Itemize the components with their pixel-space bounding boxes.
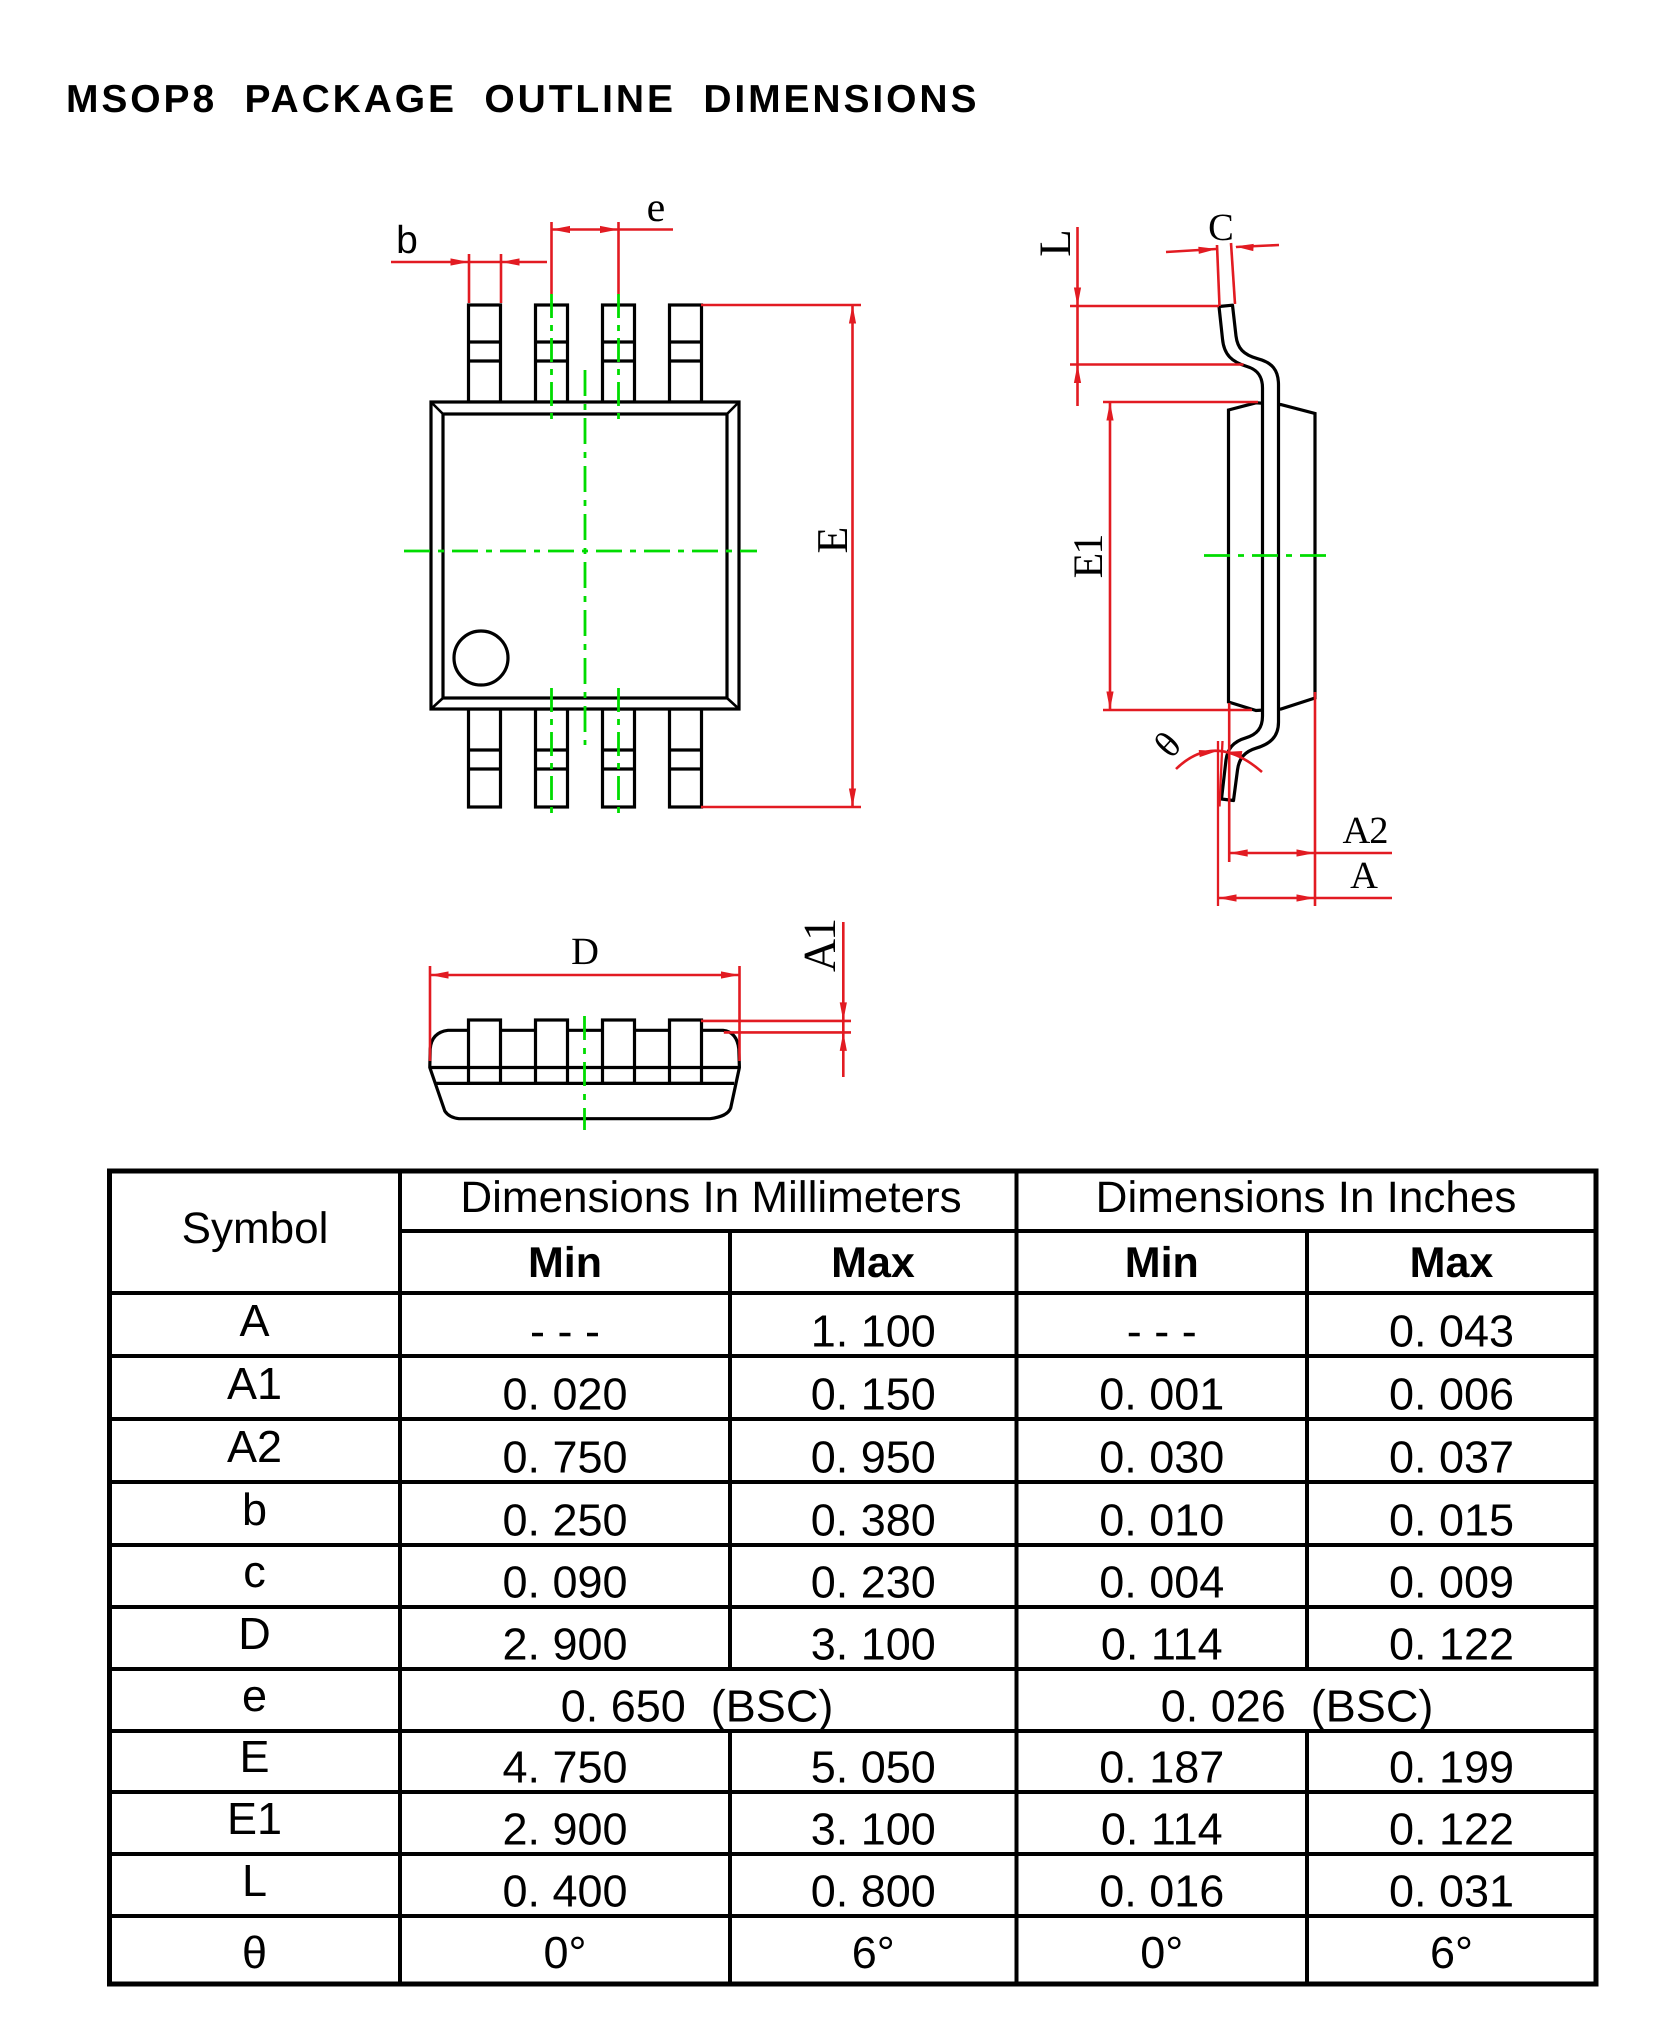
front view: lead 3 bbox=[603, 1020, 635, 1083]
side view: green horizontal centerline bbox=[1204, 554, 1331, 557]
svg-text:A2: A2 bbox=[227, 1421, 282, 1472]
dimension E: extension lines bbox=[701, 304, 861, 307]
dimension theta: tilted reference line along lead foot bbox=[1220, 741, 1223, 807]
svg-text:A1: A1 bbox=[794, 920, 845, 972]
svg-text:θ: θ bbox=[242, 1927, 267, 1978]
top view: green centerline pin7 vertical (bottom) bbox=[550, 688, 553, 819]
svg-text:Min: Min bbox=[1125, 1239, 1199, 1287]
svg-text:2. 900: 2. 900 bbox=[502, 1804, 627, 1855]
top view: package body outer outline bbox=[431, 402, 739, 709]
svg-text:0. 015: 0. 015 bbox=[1389, 1495, 1514, 1546]
dimension L: extension lines bbox=[1070, 305, 1219, 308]
svg-text:0. 009: 0. 009 bbox=[1389, 1557, 1514, 1608]
dimension E: dimension line and arrows bbox=[851, 305, 854, 807]
top view: green body horizontal centerline bbox=[404, 550, 757, 553]
svg-text:L: L bbox=[242, 1855, 267, 1906]
svg-text:0°: 0° bbox=[1140, 1927, 1183, 1978]
dimension e: extension lines bbox=[550, 222, 553, 294]
svg-text:6°: 6° bbox=[1430, 1927, 1473, 1978]
svg-text:C: C bbox=[1208, 207, 1234, 249]
svg-text:0°: 0° bbox=[543, 1927, 586, 1978]
svg-text:Dimensions In Millimeters: Dimensions In Millimeters bbox=[460, 1173, 961, 1222]
svg-text:A2: A2 bbox=[1342, 810, 1387, 852]
front view: lead 2 bbox=[536, 1020, 568, 1083]
top view: pin 4 (bottom row) bbox=[670, 709, 702, 807]
svg-text:0. 800: 0. 800 bbox=[811, 1866, 936, 1917]
front view: lead 1 bbox=[469, 1020, 501, 1083]
top view: pin 6 (top row) bbox=[603, 305, 635, 402]
svg-text:D: D bbox=[238, 1608, 271, 1659]
top view: green centerline pin3 vertical bbox=[617, 294, 620, 424]
svg-text:0. 150: 0. 150 bbox=[811, 1369, 936, 1420]
top view: pin 2 (bottom row) bbox=[536, 709, 568, 807]
svg-text:Max: Max bbox=[1410, 1239, 1494, 1287]
top view: pin 7 (top row) bbox=[536, 305, 568, 402]
top view: pin 3 (bottom row) bbox=[603, 709, 635, 807]
top view: green centerline pin6 vertical (bottom) bbox=[617, 688, 620, 819]
front view: package body outline bbox=[430, 1030, 740, 1118]
side view: bent lead bbox=[1219, 305, 1279, 800]
svg-text:0. 043: 0. 043 bbox=[1389, 1306, 1514, 1357]
table: outer border bbox=[110, 1171, 1597, 1984]
dimension theta: arc with arrows bbox=[1176, 751, 1262, 772]
svg-text:0. 037: 0. 037 bbox=[1389, 1432, 1514, 1483]
svg-text:0. 400: 0. 400 bbox=[502, 1866, 627, 1917]
front view: green vertical centerline bbox=[583, 1016, 586, 1130]
svg-text:0. 006: 0. 006 bbox=[1389, 1369, 1514, 1420]
svg-text:A: A bbox=[239, 1295, 269, 1346]
dimension b: extension lines bbox=[468, 254, 471, 303]
svg-text:0. 114: 0. 114 bbox=[1101, 1619, 1223, 1670]
svg-text:Min: Min bbox=[528, 1239, 602, 1287]
top view: pin 5 (top row) bbox=[670, 305, 702, 402]
dimension C: slanted extension lines bbox=[1217, 245, 1220, 306]
svg-text:0. 030: 0. 030 bbox=[1099, 1432, 1224, 1483]
svg-text:0. 031: 0. 031 bbox=[1389, 1866, 1514, 1917]
svg-text:MSOP8 PACKAGE OUTLINE DIMEN: MSOP8 PACKAGE OUTLINE DIMENSIONS bbox=[66, 78, 979, 121]
front view: lead 4 bbox=[670, 1020, 702, 1083]
svg-text:E1: E1 bbox=[227, 1793, 282, 1844]
dimension C: arrows bbox=[1166, 249, 1216, 252]
svg-text:0. 001: 0. 001 bbox=[1099, 1369, 1224, 1420]
svg-text:0. 230: 0. 230 bbox=[811, 1557, 936, 1608]
svg-text:3. 100: 3. 100 bbox=[811, 1619, 936, 1670]
svg-text:A: A bbox=[1350, 855, 1378, 897]
svg-text:Symbol: Symbol bbox=[182, 1204, 329, 1253]
dimension b: dimension line and arrows bbox=[391, 261, 547, 264]
svg-text:4. 750: 4. 750 bbox=[502, 1742, 627, 1793]
dimension D: extension lines bbox=[429, 966, 432, 1061]
top view: green centerline pin2 vertical bbox=[550, 294, 553, 424]
dimension D: dimension line and arrows bbox=[430, 974, 740, 977]
dimension A2: dimension line and arrows bbox=[1229, 852, 1392, 855]
svg-text:e: e bbox=[647, 185, 666, 231]
svg-text:6°: 6° bbox=[852, 1927, 895, 1978]
svg-text:Max: Max bbox=[831, 1239, 915, 1287]
table: grid lines bbox=[110, 1171, 1597, 1984]
top view: pin 8 (top row) bbox=[469, 305, 501, 402]
svg-text:0. 122: 0. 122 bbox=[1389, 1804, 1514, 1855]
svg-text:0. 016: 0. 016 bbox=[1099, 1866, 1224, 1917]
svg-text:0. 004: 0. 004 bbox=[1099, 1557, 1224, 1608]
svg-text:5. 050: 5. 050 bbox=[811, 1742, 936, 1793]
dimension A2: extension lines bbox=[1228, 703, 1231, 862]
svg-text:0. 199: 0. 199 bbox=[1389, 1742, 1514, 1793]
dimension A1: extension lines bbox=[701, 1020, 851, 1023]
dimension A: extension line bbox=[1217, 741, 1219, 906]
svg-text:- - -: - - - bbox=[1127, 1306, 1197, 1357]
svg-text:0. 010: 0. 010 bbox=[1099, 1495, 1224, 1546]
svg-text:e: e bbox=[242, 1670, 267, 1721]
svg-text:D: D bbox=[571, 931, 599, 973]
svg-text:c: c bbox=[243, 1546, 266, 1597]
svg-text:E1: E1 bbox=[1066, 536, 1112, 579]
top view: pin 1 (bottom row) bbox=[469, 709, 501, 807]
svg-text:0. 250: 0. 250 bbox=[502, 1495, 627, 1546]
svg-text:A1: A1 bbox=[227, 1358, 282, 1409]
svg-text:b: b bbox=[396, 219, 418, 262]
top view: corner chamfer lines bbox=[431, 402, 739, 709]
svg-text:0. 650 (BSC): 0. 650 (BSC) bbox=[561, 1681, 834, 1732]
top view: pin 1 indicator circle bbox=[454, 631, 508, 685]
top view: package body inner outline (chamfer) bbox=[443, 414, 727, 698]
dimension L: dimension line and arrows bbox=[1076, 227, 1079, 406]
side view: package body bbox=[1229, 403, 1316, 711]
svg-text:E: E bbox=[239, 1731, 269, 1782]
dimension A: dimension line and arrows bbox=[1218, 897, 1392, 900]
dimension e: dimension line and arrows bbox=[552, 228, 674, 231]
svg-text:- - -: - - - bbox=[530, 1306, 600, 1357]
dimension A1: dimension line and arrows bbox=[842, 922, 845, 1077]
svg-text:0. 750: 0. 750 bbox=[502, 1432, 627, 1483]
svg-text:0. 122: 0. 122 bbox=[1389, 1619, 1514, 1670]
svg-text:E: E bbox=[808, 527, 857, 554]
dimension E1: dimension line and arrows bbox=[1109, 402, 1112, 710]
svg-text:0. 114: 0. 114 bbox=[1101, 1804, 1223, 1855]
front view: body parting chord line bbox=[435, 1082, 734, 1085]
svg-text:0. 950: 0. 950 bbox=[811, 1432, 936, 1483]
svg-text:3. 100: 3. 100 bbox=[811, 1804, 936, 1855]
svg-text:0. 020: 0. 020 bbox=[502, 1369, 627, 1420]
svg-text:1. 100: 1. 100 bbox=[811, 1306, 936, 1357]
svg-text:0. 380: 0. 380 bbox=[811, 1495, 936, 1546]
svg-text:Dimensions In Inches: Dimensions In Inches bbox=[1096, 1173, 1517, 1222]
svg-text:0. 090: 0. 090 bbox=[502, 1557, 627, 1608]
top view: green body vertical centerline bbox=[584, 370, 587, 745]
svg-text:b: b bbox=[242, 1484, 267, 1535]
svg-text:0. 187: 0. 187 bbox=[1099, 1742, 1224, 1793]
svg-text:0. 026 (BSC): 0. 026 (BSC) bbox=[1161, 1681, 1434, 1732]
svg-text:2. 900: 2. 900 bbox=[502, 1619, 627, 1670]
front view: body max-width chord line bbox=[430, 1066, 740, 1069]
svg-text:L: L bbox=[1030, 229, 1080, 257]
dimension E1: extension lines bbox=[1103, 401, 1258, 404]
